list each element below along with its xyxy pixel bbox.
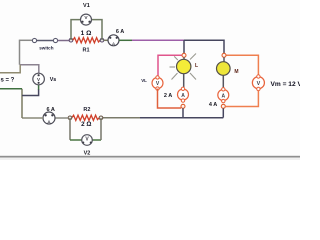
svg-text:R1: R1	[82, 47, 89, 53]
node lamp L top	[182, 53, 186, 57]
node below 2A ammeter	[181, 104, 185, 108]
bottom gray rule	[0, 156, 300, 160]
wire VL pink top	[158, 55, 182, 77]
svg-text:6 A: 6 A	[116, 29, 124, 35]
voltmeter V2	[82, 135, 93, 157]
node lamp M top	[222, 53, 226, 57]
voltmeter V1	[81, 3, 92, 25]
ammeter A1 6A	[108, 29, 124, 47]
wire V1 loop left	[71, 20, 81, 41]
svg-text:2 Ω: 2 Ω	[81, 121, 91, 128]
source Vs	[33, 73, 56, 85]
svg-text:M: M	[234, 69, 238, 75]
wire lamp M to ammeter 4A	[222, 75, 224, 89]
svg-text:A: A	[221, 93, 225, 99]
svg-text:s = ?: s = ?	[1, 78, 15, 84]
node below 4A ammeter	[221, 104, 225, 108]
wire Vs bottom to corner	[22, 89, 39, 96]
lamp L rays	[170, 54, 197, 80]
svg-text:4 A: 4 A	[209, 102, 217, 108]
wire V2 loop right	[92, 118, 101, 140]
bottom bus olive	[102, 117, 140, 119]
wire Vs bottom green lead	[38, 85, 40, 90]
wire A1 green segment	[119, 39, 132, 41]
wire node down to bus	[222, 108, 224, 117]
svg-text:VL: VL	[141, 78, 147, 83]
wire left bottom vertical	[21, 89, 23, 118]
node R2 right	[99, 116, 103, 120]
ammeter 4A	[209, 88, 229, 108]
svg-text:V1: V1	[83, 3, 90, 9]
wire lamp M node to Vm top	[226, 55, 258, 76]
svg-text:switch: switch	[39, 45, 53, 50]
svg-text:V: V	[257, 81, 261, 87]
svg-text:A: A	[47, 120, 51, 126]
voltmeter Vm	[252, 75, 302, 91]
wire stub to left edge upper	[0, 65, 20, 73]
wire R2 left to ammeter A2	[55, 117, 68, 119]
wire V1 loop right	[91, 20, 102, 41]
wire node to lamp L	[183, 57, 185, 60]
node R1 left	[69, 38, 73, 42]
bottom bus navy	[140, 117, 223, 119]
svg-text:6 A: 6 A	[47, 107, 55, 113]
wire violet segment to junction	[132, 39, 184, 41]
wire branch to Vs top	[20, 65, 39, 74]
wire Vm bottom	[225, 89, 258, 107]
ammeter A2 6A	[43, 107, 55, 126]
wire left vertical down from corner	[19, 40, 21, 65]
wire VL bottom	[158, 89, 182, 108]
label Vs = ?	[1, 78, 15, 84]
svg-text:Vm = 12 V: Vm = 12 V	[271, 81, 301, 88]
ammeter 2A	[164, 87, 189, 102]
node R2 left	[68, 116, 72, 120]
svg-text:L: L	[195, 63, 198, 69]
resistor R2	[72, 107, 99, 128]
lamp L	[177, 59, 199, 73]
svg-text:R2: R2	[83, 107, 90, 113]
node R1 right	[100, 38, 104, 42]
switch	[32, 38, 57, 50]
wire V2 loop left	[70, 118, 82, 140]
svg-text:1 Ω: 1 Ω	[81, 30, 92, 37]
lamp M	[217, 62, 239, 76]
wire switch to R1	[58, 40, 70, 42]
svg-text:Vs: Vs	[50, 77, 57, 83]
wire lamp L to ammeter 2A	[183, 74, 185, 89]
wire top-left from corner to switch	[20, 39, 35, 41]
svg-text:A: A	[181, 93, 185, 99]
wire node to lamp M	[223, 57, 225, 62]
wire junction down to lamp L node	[183, 40, 185, 53]
svg-text:2 A: 2 A	[164, 93, 172, 99]
voltmeter VL	[141, 76, 163, 91]
resistor R1	[73, 30, 100, 53]
wire R1 to ammeter A1	[104, 39, 108, 41]
wire navy bus to lamp M corner	[184, 40, 224, 53]
svg-text:V2: V2	[84, 151, 91, 157]
wire A2 to left corner	[22, 117, 43, 119]
wire green stub to left edge	[0, 88, 22, 90]
wire node to bottom bus	[182, 108, 184, 117]
